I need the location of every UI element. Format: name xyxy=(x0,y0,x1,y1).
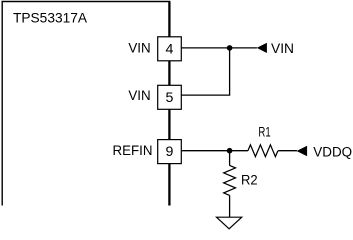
svg-text:VIN: VIN xyxy=(271,41,294,57)
svg-text:VDDQ: VDDQ xyxy=(313,145,352,161)
svg-text:R1: R1 xyxy=(258,124,270,140)
svg-text:VIN: VIN xyxy=(128,88,150,104)
svg-text:4: 4 xyxy=(166,41,174,57)
svg-text:R2: R2 xyxy=(241,173,258,189)
svg-text:5: 5 xyxy=(166,90,174,106)
svg-text:VIN: VIN xyxy=(128,41,150,57)
svg-text:9: 9 xyxy=(166,144,174,160)
svg-text:REFIN: REFIN xyxy=(113,143,153,159)
svg-text:TPS53317A: TPS53317A xyxy=(13,10,88,26)
